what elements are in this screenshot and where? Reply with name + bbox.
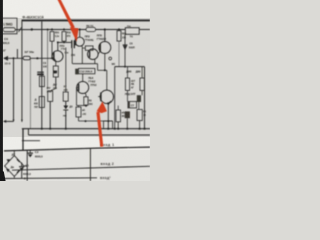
transistor T6 xyxy=(77,82,89,94)
transistor T3 xyxy=(52,51,63,62)
wire: power bottom rail xyxy=(4,177,97,180)
T6 emitter to resistor xyxy=(85,93,86,97)
bias resistor left xyxy=(127,67,129,78)
paper background bands xyxy=(0,0,150,181)
wire: faint crease vertical x30.4 xyxy=(29,58,31,128)
resistor R65 xyxy=(137,110,142,121)
diode D6 xyxy=(63,106,68,110)
wire: left rail x42 xyxy=(41,21,43,129)
node: T3 collector junction xyxy=(57,41,59,43)
capacitor C7 dark component xyxy=(137,95,141,102)
wire: secondary bottom rail xyxy=(28,134,150,136)
frame: left border xyxy=(21,20,23,121)
wire: main bottom rail xyxy=(22,128,150,130)
resistor chain lower xyxy=(48,91,53,101)
wire: y121 segment and corner xyxy=(79,120,113,122)
wire: input row y58.3 xyxy=(4,57,23,59)
wire: x66 vertical to resistor xyxy=(65,48,67,93)
capacitor C9 on x42 rail xyxy=(37,71,44,73)
switch tick xyxy=(19,27,22,32)
resistor R9 under T6 emitter xyxy=(84,97,88,105)
transistor T5 xyxy=(99,42,111,54)
wire: bridge to x27 xyxy=(24,165,27,167)
transistor T7 xyxy=(100,90,113,103)
small label box between T4 and T5 xyxy=(85,46,93,50)
small circle marker xyxy=(109,57,112,60)
transistor T4 xyxy=(75,37,84,46)
terminal box right of T7 xyxy=(104,121,113,129)
resistor on x42 lower xyxy=(39,97,44,108)
wire: mid power rail xyxy=(12,166,150,170)
wire: mid row y63.7 xyxy=(73,63,98,65)
wire: input box to bus xyxy=(15,29,32,31)
resistor R0 51 on bus xyxy=(86,27,96,31)
vertical x97 xyxy=(89,148,91,181)
wire: T3 collector row y42.4 xyxy=(58,41,71,43)
frame: top border of schematic xyxy=(22,19,151,21)
bias resistor right xyxy=(141,67,143,78)
left black strip xyxy=(0,0,3,173)
bottom-left black corner xyxy=(0,170,6,181)
node: junction on bus xyxy=(31,28,33,30)
wire: y70.3 row xyxy=(98,69,107,71)
wire: short top line xyxy=(22,140,40,142)
capacitor C2 xyxy=(29,150,31,153)
red annotation arrow 2 (bottom) xyxy=(96,102,107,147)
capacitor C6 (polarized triangle) xyxy=(123,44,128,46)
red annotation arrow 1 (top) xyxy=(57,0,78,42)
resistor under T6 base xyxy=(78,106,80,108)
resistor under T3 emitter xyxy=(53,66,58,77)
fuse box ПА xyxy=(125,28,139,35)
resistor R52 xyxy=(62,32,66,42)
wire: output stub with arrow xyxy=(3,120,13,122)
dark cap blob xyxy=(125,111,130,118)
resistor R49 horizontal pill xyxy=(23,56,30,60)
capacitor C1 xyxy=(21,163,23,167)
bridge rectifier diamond xyxy=(5,156,24,177)
power section: thick vertical xyxy=(22,129,24,151)
tiny schematic texts xyxy=(2,15,146,180)
capacitor C8 lead xyxy=(16,49,18,58)
wire: bias bus y66.6 xyxy=(115,66,145,68)
resistor R61 xyxy=(118,30,120,31)
label box C7 xyxy=(128,102,137,108)
rail junction dots xyxy=(41,128,146,130)
wire: connector between rails xyxy=(27,129,29,135)
boxed label C12 xyxy=(79,68,95,73)
resistor in input box xyxy=(3,28,15,32)
capacitor C10 coupling plates xyxy=(71,40,73,48)
input box (cropped at left) xyxy=(0,18,17,34)
wire: left pointer line x13.5 xyxy=(13,58,15,121)
node: x13.5 on input row xyxy=(13,57,15,59)
wire: long sloped divider (power rail + row line) xyxy=(4,147,150,151)
resistor on x42 upper xyxy=(39,76,44,86)
resistor R50 xyxy=(50,32,54,42)
wire: faint vertical x47.6 xyxy=(47,30,49,90)
T6 base wire L-shape xyxy=(77,88,79,106)
pointer arrowheads at x13.5 / x22 xyxy=(13,120,15,123)
node: R50 foot on input row xyxy=(51,57,53,59)
scan noise overlay xyxy=(0,0,150,181)
wire: C6 drop xyxy=(124,34,126,66)
resistor R64 xyxy=(116,110,121,122)
transistor T4b xyxy=(88,49,99,60)
wire: x27 vertical xyxy=(26,151,28,182)
wire: top bus y29.5 xyxy=(32,29,86,31)
wire: y105.5 row xyxy=(77,105,87,107)
node: x37.4 on input row xyxy=(36,57,38,59)
